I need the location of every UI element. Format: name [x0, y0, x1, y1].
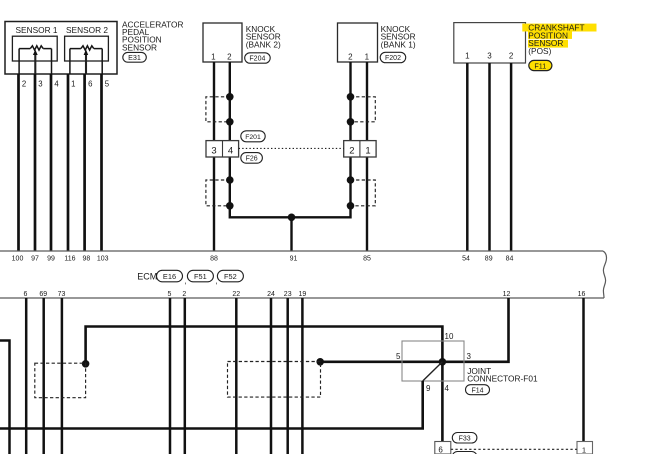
wire ECM 22 down: [235, 298, 238, 454]
svg-text:F204: F204: [249, 56, 265, 63]
svg-text:10: 10: [445, 332, 454, 341]
svg-text:(BANK 1): (BANK 1): [381, 39, 416, 49]
wire crank pin2 to ECM 84: [510, 63, 513, 251]
svg-text:89: 89: [485, 255, 493, 262]
svg-text:(BANK 2): (BANK 2): [246, 39, 281, 49]
svg-text:SENSOR 1: SENSOR 1: [16, 25, 58, 35]
svg-text:2: 2: [509, 52, 514, 61]
connector F202 oval: [380, 52, 406, 62]
node dot bank2 lower bottom: [226, 202, 234, 210]
shield dashed box bank2 upper: [206, 97, 230, 122]
svg-text:1: 1: [365, 52, 370, 61]
svg-text:3: 3: [211, 146, 216, 157]
shield dashed box bank1 lower: [351, 180, 376, 206]
sensor 1 inner box: [12, 36, 57, 61]
wire knock bank2 pin2 down: [229, 62, 231, 141]
svg-text:24: 24: [267, 291, 275, 298]
wire pin1 to ECM 116: [67, 74, 70, 251]
svg-text:3: 3: [487, 52, 492, 61]
node dot bank1 upper top: [347, 93, 355, 101]
accelerator sensor name label: [122, 19, 183, 52]
svg-text:69: 69: [39, 291, 47, 298]
svg-text:9: 9: [426, 384, 431, 393]
wire pin5 to ECM 103: [100, 74, 103, 251]
svg-text:3: 3: [467, 352, 472, 361]
node dot bank1 lower bottom: [347, 202, 355, 210]
sensor 2 inner box: [65, 36, 109, 61]
svg-text:F26: F26: [246, 156, 258, 163]
ECM pin labels bottom row: [24, 291, 586, 298]
wire ECM 16 down to connector: [582, 298, 585, 442]
highlight crankshaft label: [522, 24, 596, 32]
wire pin4 to ECM 99: [50, 74, 53, 251]
connector F33 oval: [452, 433, 477, 444]
wire knock bank1 pin1 to ECM 85: [366, 62, 368, 251]
node dot shield 2: [316, 358, 324, 366]
svg-text:54: 54: [462, 255, 470, 262]
svg-text:6: 6: [24, 291, 28, 298]
crankshaft position sensor box: [454, 23, 526, 63]
svg-text:F201: F201: [245, 134, 261, 141]
svg-text:2: 2: [22, 80, 26, 89]
node dot bank1 lower top: [347, 176, 355, 184]
ECM box bottom line: [0, 297, 604, 299]
connector F26 cells 2|1: [344, 141, 376, 157]
svg-text:1: 1: [465, 52, 470, 61]
knock sensor bank1 name label: [381, 24, 416, 50]
wire joint pin 9 return to left edge: [0, 381, 423, 429]
shield dashed box bank2 lower: [206, 180, 230, 206]
wire ECM 6 down: [25, 298, 28, 454]
svg-text:F51: F51: [194, 272, 207, 281]
partial oval below F33: [452, 452, 477, 454]
svg-text:1: 1: [582, 445, 586, 454]
svg-text:5: 5: [105, 80, 110, 89]
svg-text:116: 116: [64, 255, 75, 262]
svg-text:E16: E16: [163, 272, 176, 281]
svg-text:103: 103: [97, 255, 109, 262]
svg-text:F33: F33: [459, 436, 471, 443]
node dot shield 1: [82, 360, 90, 368]
svg-text:97: 97: [31, 255, 39, 262]
svg-text:99: 99: [47, 255, 55, 262]
wire pin6 to ECM 98: [83, 74, 86, 251]
svg-text:CONNECTOR-F01: CONNECTOR-F01: [467, 373, 538, 383]
wire pin2 to ECM 100: [17, 74, 20, 251]
connector E16 oval: [157, 270, 183, 282]
svg-text:1: 1: [365, 146, 370, 157]
svg-text:,: ,: [184, 277, 186, 286]
connector F201 oval: [241, 131, 265, 142]
shield dashed box bottom-left: [35, 363, 86, 398]
wire knock bank2 pin1 to ECM 88: [213, 62, 215, 251]
wire ECM 2 down: [184, 298, 187, 454]
svg-text:2: 2: [348, 52, 353, 61]
svg-text:12: 12: [503, 291, 511, 298]
connector F26 oval: [241, 153, 263, 164]
svg-text:2: 2: [349, 146, 354, 157]
dotted link between box 6 and box 1: [451, 448, 577, 450]
wire ECM 73 down: [61, 298, 64, 454]
svg-text:73: 73: [58, 291, 66, 298]
potentiometer R1 (sensor 1): [19, 46, 51, 74]
svg-text:2: 2: [182, 291, 186, 298]
potentiometer R2 wiper arrow: [84, 50, 89, 56]
connector F52 oval: [217, 270, 243, 282]
svg-text:4: 4: [228, 146, 233, 157]
node dot bank2 upper bottom: [226, 118, 234, 126]
svg-text:6: 6: [88, 80, 92, 89]
connector F14 oval: [466, 385, 490, 395]
knock sensor bank1 box: [338, 23, 378, 62]
svg-text:16: 16: [578, 291, 586, 298]
ECM box top line: [0, 250, 603, 252]
shield dashed box bank1 upper: [351, 97, 376, 122]
svg-text:SENSOR: SENSOR: [122, 42, 157, 52]
svg-text:23: 23: [284, 291, 292, 298]
shield dashed box bottom-middle: [228, 362, 321, 398]
wire shield node1 up and over to joint connector pin 10 / 4: [86, 327, 443, 442]
ECM box torn right edge: [603, 251, 606, 298]
svg-text:4: 4: [54, 80, 59, 89]
accelerator pedal position sensor E31 outer box: [5, 22, 117, 75]
svg-text:F14: F14: [471, 388, 483, 395]
svg-text:2: 2: [227, 52, 232, 61]
potentiometer R1 wiper arrow: [33, 50, 38, 56]
joint connector name label: [467, 366, 538, 384]
svg-text:85: 85: [363, 255, 371, 262]
node dot bank2 upper top: [226, 93, 234, 101]
svg-text:84: 84: [506, 255, 514, 262]
svg-text:3: 3: [38, 80, 42, 89]
crankshaft sensor name label: [528, 23, 584, 56]
svg-text:SENSOR 2: SENSOR 2: [66, 25, 108, 35]
dotted link between connector halves: [239, 147, 344, 149]
wire crank pin3 to ECM 89: [488, 63, 491, 251]
joint connector F14 box: [402, 341, 464, 381]
wire pin3 to ECM 97: [34, 74, 37, 251]
svg-text:6: 6: [438, 446, 443, 454]
wire ECM 69 down: [42, 298, 45, 454]
svg-text:98: 98: [83, 255, 91, 262]
svg-text:F52: F52: [224, 272, 237, 281]
joint connector internal diagonal to pin 9: [423, 362, 443, 381]
svg-text:(POS): (POS): [528, 46, 551, 56]
node dot bank1 upper bottom: [347, 118, 355, 126]
connector E31 oval: [123, 52, 147, 62]
svg-text:91: 91: [290, 255, 298, 262]
joint connector internal junction dot: [439, 358, 447, 366]
svg-text:ECM: ECM: [137, 271, 157, 281]
connector F204 oval: [245, 53, 271, 63]
wire ECM 5 down: [169, 298, 172, 454]
wire ECM 12 down and over to joint connector pin 3 / 5: [320, 298, 508, 362]
wire left edge elbow: [0, 341, 10, 454]
svg-text:4: 4: [445, 384, 450, 393]
potentiometer R2 (sensor 2): [70, 46, 102, 74]
svg-text:5: 5: [396, 352, 401, 361]
ECM pin labels top row: [12, 255, 514, 262]
wire crank pin1 to ECM 54: [466, 63, 469, 251]
svg-text:F202: F202: [385, 55, 401, 62]
junction node knock shields: [288, 214, 296, 222]
wire knock shield junction to ECM 91: [230, 157, 351, 251]
knock sensor bank2 name label: [246, 24, 281, 50]
svg-text:F11: F11: [534, 61, 546, 70]
node dot bank2 lower top: [226, 176, 234, 184]
knock sensor bank2 box: [203, 23, 242, 62]
wire knock bank1 pin2 down: [349, 62, 351, 141]
svg-text:5: 5: [168, 291, 172, 298]
connector F11 oval highlighted: [529, 60, 552, 70]
connector F26 cells 3|4: [206, 141, 239, 157]
svg-text:1: 1: [71, 80, 75, 89]
connector box 1: [577, 442, 593, 454]
svg-text:E31: E31: [128, 53, 141, 62]
svg-text:1: 1: [211, 52, 216, 61]
wire ECM 19 down: [301, 298, 304, 454]
wire ECM 23 down: [286, 298, 289, 454]
svg-text:100: 100: [12, 255, 24, 262]
svg-text:22: 22: [232, 291, 240, 298]
svg-text:88: 88: [210, 255, 218, 262]
connector box 6: [435, 442, 451, 454]
svg-text:19: 19: [299, 291, 307, 298]
connector F51 oval: [187, 270, 213, 282]
wire ECM 24 down: [270, 298, 273, 454]
